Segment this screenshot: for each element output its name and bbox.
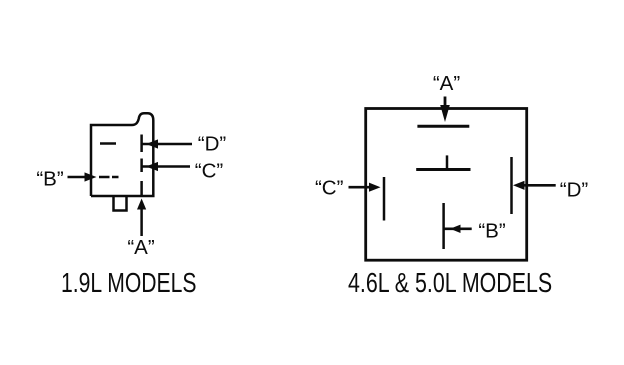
- svg-text:1.9L MODELS: 1.9L MODELS: [61, 268, 196, 298]
- svg-text:“A”: “A”: [433, 72, 461, 95]
- svg-text:“D”: “D”: [198, 133, 227, 156]
- svg-text:“A”: “A”: [127, 236, 155, 259]
- svg-text:“B”: “B”: [478, 220, 506, 243]
- svg-text:“C”: “C”: [195, 160, 224, 183]
- svg-text:“B”: “B”: [36, 167, 64, 190]
- svg-text:4.6L & 5.0L MODELS: 4.6L & 5.0L MODELS: [348, 269, 552, 299]
- svg-text:“D”: “D”: [560, 179, 589, 202]
- svg-text:“C”: “C”: [315, 177, 344, 200]
